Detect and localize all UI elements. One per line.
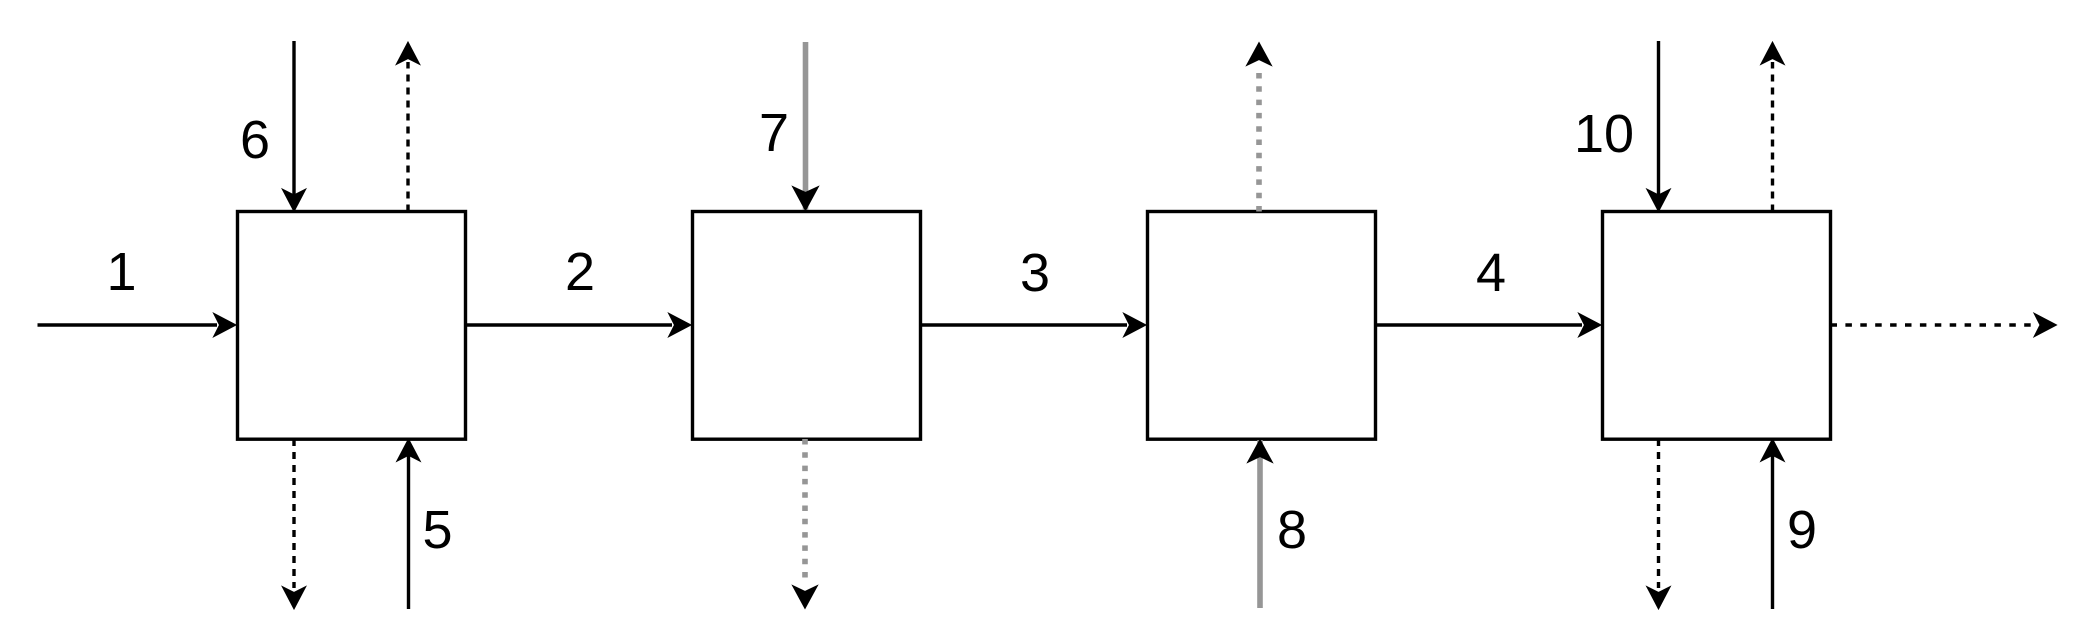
svg-text:3: 3 — [1020, 243, 1050, 303]
arrow 7 (gray, into box 2 top) — [793, 42, 819, 211]
arrow 1 (feed into box 1) — [38, 313, 237, 337]
svg-text:2: 2 — [565, 242, 595, 302]
arrow 8 (gray, into box 3 bottom) — [1248, 440, 1273, 609]
arrow 5 (into box 1 bottom) — [397, 439, 421, 609]
arrow 9 (into box 4 bottom) — [1761, 439, 1785, 609]
gray dashed vent arrow up from box 3 top — [1247, 43, 1272, 212]
svg-text:4: 4 — [1476, 243, 1506, 303]
dashed vent arrow up from box 4 top — [1761, 42, 1785, 212]
process box 4 — [1603, 212, 1831, 440]
arrow 4 (box 3 to box 4) — [1376, 313, 1602, 337]
svg-text:1: 1 — [106, 242, 136, 302]
process box 2 — [693, 212, 921, 440]
svg-text:10: 10 — [1574, 104, 1634, 164]
process box 1 — [238, 212, 466, 440]
dashed waste arrow down from box 1 bottom — [282, 439, 306, 609]
arrow 3 (box 2 to box 3) — [921, 313, 1147, 337]
process box 3 — [1148, 212, 1376, 440]
dashed waste arrow down from box 4 bottom — [1647, 439, 1671, 609]
dashed output arrow from box 4 — [1831, 313, 2057, 337]
svg-text:8: 8 — [1277, 500, 1307, 560]
gray dashed waste arrow down from box 2 bottom — [793, 439, 818, 609]
arrow 2 (box 1 to box 2) — [466, 313, 692, 337]
svg-text:7: 7 — [759, 103, 789, 163]
svg-text:6: 6 — [240, 110, 270, 170]
svg-text:5: 5 — [422, 500, 452, 560]
svg-text:9: 9 — [1787, 500, 1817, 560]
dashed vent arrow up from box 1 top — [396, 42, 420, 212]
arrow 10 (into box 4 top) — [1647, 41, 1671, 212]
arrow 6 (into box 1 top) — [282, 41, 306, 212]
